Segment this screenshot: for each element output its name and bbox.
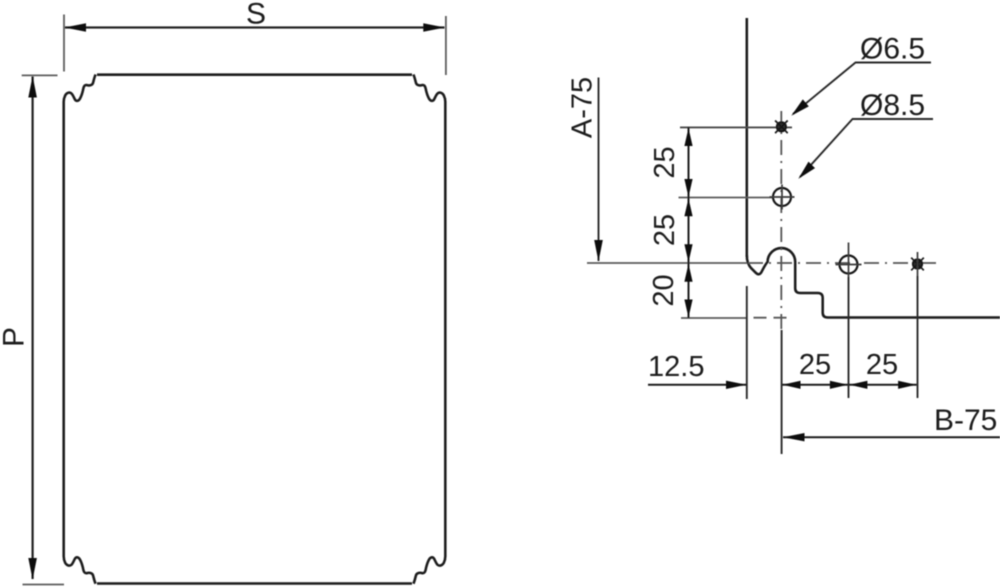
extension line below hole 848 — [848, 277, 850, 398]
svg-text:Ø6.5: Ø6.5 — [860, 33, 925, 66]
plate outline: left edge — [62, 102, 65, 557]
dimension 12.5: arrowhead — [726, 381, 746, 389]
arrow 25a top — [684, 128, 692, 146]
dimension 25 right a: line — [782, 384, 848, 386]
svg-text:25: 25 — [866, 349, 898, 381]
svg-text:25: 25 — [649, 214, 681, 246]
detail view: keyhole slot and stepped edge — [747, 248, 1000, 317]
arrow 20 bottom — [684, 300, 692, 318]
dimension A-75: dimension line — [598, 78, 600, 262]
stacked dimension line vertical — [688, 127, 690, 318]
plate corner notch bottom-right — [413, 556, 445, 583]
hole 8.5: circle — [773, 188, 791, 206]
dimension P: extension line bottom — [23, 584, 65, 586]
hidden edge dashes at bottom row — [754, 317, 793, 319]
svg-text:A-75: A-75 — [567, 77, 599, 138]
extension line below hole 917 — [917, 276, 919, 398]
centerline horizontal left solid part — [587, 262, 747, 264]
arrow 20 top — [684, 264, 692, 282]
arrow 25a bottom — [684, 179, 692, 197]
dimension B-75: arrowhead — [783, 433, 805, 441]
svg-text:12.5: 12.5 — [648, 351, 704, 383]
leader 6.5: arrowhead — [791, 99, 809, 115]
dimension P: extension line top — [22, 74, 58, 76]
extension line row bottom — [681, 317, 748, 319]
dimension S: extension line left — [63, 15, 65, 72]
svg-text:20: 20 — [648, 274, 680, 306]
plate outline: bottom edge — [97, 582, 412, 585]
hole 8.5 right: cross — [836, 243, 862, 278]
dimension P: arrowhead top — [28, 76, 37, 98]
arrow right — [830, 381, 848, 389]
leader 8.5: arrowhead — [798, 162, 815, 179]
centerline horizontal dash-dot right part — [748, 262, 936, 264]
centerline vertical through holes — [780, 111, 782, 330]
dimension B-75: line — [783, 436, 1000, 438]
svg-text:25: 25 — [799, 349, 831, 381]
dimension S: extension line right — [445, 16, 447, 75]
arrow left — [849, 381, 867, 389]
svg-text:S: S — [246, 0, 266, 31]
hole 6.5 top: circle — [777, 122, 786, 131]
plate corner notch top-right — [413, 75, 445, 102]
dimension A-75: arrowhead — [594, 240, 603, 262]
extension line row hole1 — [680, 126, 792, 128]
dimension P: dimension line — [31, 77, 33, 580]
dimension P: arrowhead bottom — [28, 558, 37, 580]
arrow left — [783, 381, 801, 389]
leader 6.5: diagonal — [793, 63, 856, 115]
plate corner notch bottom-left — [64, 556, 96, 583]
plate corner notch top-left — [64, 75, 96, 102]
reference line B vertical — [781, 330, 783, 454]
arrow 25b bottom — [684, 244, 692, 262]
svg-text:B-75: B-75 — [934, 404, 997, 437]
leader 8.5: underline — [852, 118, 933, 120]
dimension S: dimension line — [65, 26, 445, 28]
hole 6.5 right: diagonal ticks — [911, 258, 924, 271]
extension line row hole2 — [679, 197, 773, 199]
hole 6.5 right: vertical stub — [917, 252, 919, 276]
hole 8.5 right on centerline: circle — [840, 256, 858, 274]
svg-text:25: 25 — [649, 146, 681, 178]
plate outline: top edge — [97, 73, 412, 76]
arrow 25b top — [684, 198, 692, 216]
plate outline: right edge — [444, 102, 447, 557]
svg-text:Ø8.5: Ø8.5 — [860, 89, 925, 122]
dimension S: arrowhead right — [423, 23, 445, 32]
svg-text:P: P — [0, 327, 31, 347]
leader 8.5: diagonal — [800, 119, 853, 177]
extension line below keyhole x=746.8 — [746, 286, 748, 399]
hole 8.5: cross — [770, 185, 795, 210]
dimension S: arrowhead left — [65, 23, 87, 32]
hole 6.5 right on centerline: circle — [913, 259, 922, 268]
arrow right — [898, 381, 916, 389]
hole 6.5 top: diagonal ticks — [775, 121, 788, 134]
leader 6.5: underline — [855, 62, 931, 64]
detail view: plate left edge vertical — [746, 18, 749, 257]
dimension 25 right b: line — [849, 384, 917, 386]
dimension 12.5: line — [648, 384, 746, 386]
